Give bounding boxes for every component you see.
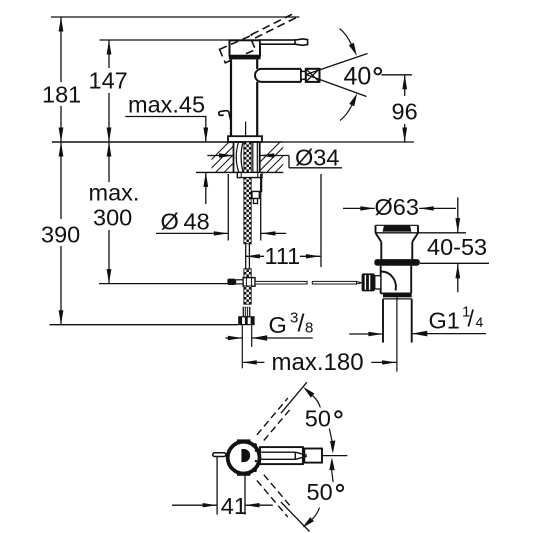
horizontal linkage rod segment 2 bbox=[312, 281, 356, 284]
cap dark band bbox=[229, 55, 261, 59]
faucet shank through deck bbox=[234, 142, 260, 172]
dimension G1 1/4 arrow bbox=[412, 333, 486, 335]
svg-text:48: 48 bbox=[184, 209, 210, 235]
svg-text:41: 41 bbox=[221, 493, 247, 519]
dimension max.45 leader bbox=[125, 116, 206, 118]
svg-text:390: 390 bbox=[41, 222, 80, 248]
upper ray arc arrowhead bbox=[303, 387, 314, 398]
lower 50 deg inner arrow bbox=[332, 470, 334, 482]
lever blade tip bbox=[295, 39, 308, 45]
max.45 lower arrow bbox=[205, 172, 207, 204]
plan ring top flat bbox=[237, 439, 250, 442]
spray cone lines (40 degrees) bbox=[306, 54, 368, 97]
max.300 lower reference stub bbox=[99, 283, 228, 285]
svg-text:8: 8 bbox=[305, 320, 313, 337]
dimension max.300 line bbox=[108, 142, 110, 284]
dimension G3/8 arrows bbox=[225, 337, 312, 339]
upper 50 deg ray bbox=[281, 382, 307, 413]
svg-text:Ø34: Ø34 bbox=[295, 144, 339, 170]
drain valve shoulder bbox=[376, 233, 419, 242]
mounting deck bottom line bbox=[196, 171, 283, 173]
plan faucet body circle bbox=[228, 442, 260, 474]
plan center line bbox=[322, 455, 347, 457]
svg-text:40-53: 40-53 bbox=[427, 234, 487, 260]
plain pull rod section bbox=[246, 244, 250, 269]
upper 50 deg inner arrow bbox=[329, 429, 332, 442]
aerator connector bbox=[301, 71, 306, 79]
svg-text:300: 300 bbox=[93, 205, 132, 231]
G1 1/4 left arrow bbox=[349, 333, 383, 335]
svg-text:/: / bbox=[298, 310, 305, 338]
mounting deck top line bbox=[52, 141, 283, 143]
supply pipe below nut bbox=[241, 325, 243, 368]
plan lever grip bbox=[304, 449, 322, 463]
deck level extension line to 96 dim bbox=[283, 141, 414, 143]
dimension Ø34 bbox=[207, 156, 342, 168]
svg-text:G1: G1 bbox=[429, 307, 460, 333]
stepped mounting bracket bbox=[249, 178, 261, 204]
lower ray arc arrowhead bbox=[302, 517, 314, 528]
dimension Ø48 bbox=[156, 174, 286, 241]
svg-text:111: 111 bbox=[265, 243, 301, 269]
deck hatching left of shank bbox=[196, 139, 266, 175]
dimension 96 bbox=[382, 74, 413, 76]
drain plug skirt sides bbox=[376, 225, 419, 233]
pop-up rod knob on body bbox=[219, 111, 231, 120]
floor reference line bbox=[50, 324, 239, 326]
svg-text:max.180: max.180 bbox=[272, 349, 364, 376]
spray cone arc arrow lower bbox=[340, 105, 352, 120]
drain valve: plug top line bbox=[376, 224, 419, 226]
plan pop-up rod stub bbox=[213, 453, 226, 457]
drain knurled knob bbox=[362, 273, 375, 291]
lever cap bbox=[230, 40, 261, 55]
pop-up tee left cap bbox=[227, 279, 235, 285]
locknut below deck bbox=[237, 172, 262, 177]
deck hatching right of shank bbox=[247, 139, 317, 175]
dimension 147 line bbox=[108, 40, 110, 142]
lower dashed lever position bbox=[257, 475, 290, 517]
svg-text:147: 147 bbox=[89, 68, 128, 94]
supply: threaded section below tee bbox=[244, 286, 251, 304]
svg-text:max.45: max.45 bbox=[128, 92, 205, 118]
extension line top (lever raised level) bbox=[51, 16, 300, 18]
dashed lever blade (raised position) bbox=[251, 14, 295, 38]
plan screw dots bbox=[255, 450, 257, 452]
dimension max.180 bbox=[242, 361, 396, 363]
dimension 181 line bbox=[60, 17, 62, 142]
pop-up tee body bbox=[243, 278, 255, 287]
plan ring bottom flat bbox=[237, 473, 250, 476]
supply knurled collar bbox=[243, 307, 251, 317]
dimension 41 bbox=[172, 457, 273, 515]
dimension 40-53 bbox=[376, 197, 490, 292]
supply G3/8 nut bbox=[238, 316, 254, 325]
short threaded block above tee bbox=[244, 269, 251, 278]
spray cone arc arrow upper bbox=[340, 29, 352, 45]
svg-text:max.: max. bbox=[89, 180, 140, 206]
drain valve neck bbox=[381, 242, 412, 259]
drain plug dark cap bbox=[383, 226, 412, 232]
drain valve body bbox=[381, 266, 412, 294]
dimension 390 line bbox=[60, 142, 62, 325]
drain tailpipe center line bbox=[396, 296, 398, 372]
horizontal linkage rod segment 1 bbox=[255, 281, 307, 284]
dimension 111 bbox=[245, 174, 321, 267]
plan lever outer outline bbox=[260, 447, 303, 464]
svg-text:40: 40 bbox=[344, 63, 372, 91]
drain valve flange (dark) bbox=[374, 259, 420, 266]
plan cartridge D mark bbox=[241, 449, 250, 462]
svg-text:Ø: Ø bbox=[161, 209, 179, 235]
dimension Ø63 bbox=[343, 207, 456, 209]
plan lever shaft lines bbox=[260, 452, 295, 459]
base flange bbox=[228, 136, 262, 142]
drain tail joint dark band bbox=[383, 294, 412, 297]
svg-text:50: 50 bbox=[307, 479, 333, 505]
lower 50 deg ray bbox=[281, 502, 310, 532]
threaded rod (checkered) inside shank bbox=[244, 142, 251, 172]
svg-text:4: 4 bbox=[476, 314, 484, 330]
svg-text:181: 181 bbox=[42, 82, 81, 108]
spout bbox=[255, 69, 301, 82]
svg-text:50: 50 bbox=[305, 405, 331, 431]
dashed lever cap (raised position) bbox=[220, 36, 256, 63]
upper dashed lever position bbox=[257, 398, 290, 440]
pop-up tee connector bbox=[236, 280, 244, 284]
plan lever taper wedge bbox=[295, 452, 307, 459]
extension line cap top level bbox=[100, 39, 230, 41]
svg-text:G: G bbox=[269, 312, 287, 338]
faucet body (front view) bbox=[231, 59, 257, 136]
plan ring contact marks bbox=[254, 443, 257, 446]
svg-text:Ø63: Ø63 bbox=[375, 194, 419, 220]
svg-text:96: 96 bbox=[392, 99, 418, 125]
cartridge pull-rod inside body bbox=[245, 122, 247, 137]
lever handle bar bbox=[260, 40, 296, 44]
aerator (mousseur) box with X bbox=[306, 69, 320, 82]
drain tailpipe bbox=[383, 299, 412, 343]
svg-text:/: / bbox=[468, 306, 475, 332]
threaded rod below deck bbox=[244, 178, 251, 244]
linkage rod tip wedge bbox=[357, 282, 362, 284]
drain knob connector bbox=[375, 276, 381, 289]
flexible hose curves inside shank bbox=[236, 142, 257, 172]
